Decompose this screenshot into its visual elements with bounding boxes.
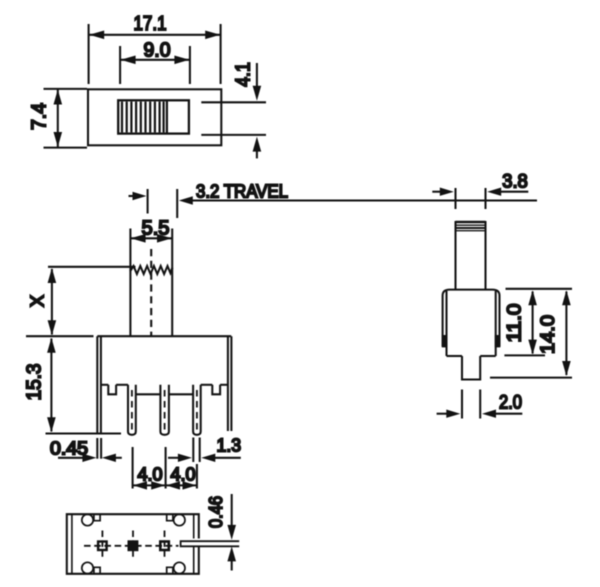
terminal pin 3 dashed center (196, 390, 198, 430)
base strip bottom edge between pins (136, 393, 161, 395)
dim 9.0 extension lines (119, 46, 121, 84)
bottom view: bottom-right corner notch circle (174, 562, 185, 573)
dim 1.3 left-pointing arrow (201, 454, 215, 462)
dim 15.3 bottom extension line (46, 432, 122, 434)
body left mounting leg (96, 336, 98, 433)
side view: inner right wall (495, 291, 497, 356)
dim 4.1 down arrow (256, 63, 258, 90)
dim 11.0 dimension line and arrows (532, 292, 534, 354)
pin3 extension lines (192, 438, 194, 463)
actuator break zigzag (130, 266, 172, 274)
top view: slider knob right edge (166, 100, 168, 133)
dim 3.8 extension lines (454, 188, 456, 209)
actuator left side / extension line (129, 229, 131, 272)
dim 4.1 extension lines (201, 101, 266, 103)
side view: body bottom edge (447, 355, 463, 357)
side view: stem top serrations (456, 221, 486, 224)
travel note: left tick (147, 189, 149, 214)
dim 11.0 bottom extension line (504, 354, 545, 356)
side view: right leg foot (496, 336, 500, 347)
bottom view: top-left corner notch square (94, 515, 100, 521)
dim 0.45 left-pointing arrow (102, 454, 116, 462)
dim 14.0 dimension line and arrows (565, 292, 567, 376)
svg-text:X: X (28, 295, 48, 307)
terminal pin 1 dashed center (131, 390, 133, 430)
bottom view: horizontal dashed center line (84, 545, 179, 547)
dim 11/14 top extension line (506, 288, 573, 290)
svg-text:0.46: 0.46 (206, 496, 226, 528)
svg-text:4.0: 4.0 (171, 465, 196, 485)
svg-text:4.1: 4.1 (233, 62, 255, 87)
travel note: right tick (176, 189, 178, 218)
svg-text:0.45: 0.45 (50, 439, 88, 459)
left bottom tab (108, 385, 116, 395)
top view: switch body outline (88, 89, 221, 145)
bottom view: terminal square 2 (129, 542, 138, 551)
bottom view: inner left wall line (71, 514, 73, 574)
svg-text:3.2 TRAVEL: 3.2 TRAVEL (196, 181, 288, 202)
dim 7.4 extension lines (44, 88, 88, 90)
bottom view: inner right wall line (193, 514, 195, 574)
actuator center dashed line (150, 249, 152, 336)
dim 2.0 extension lines (461, 390, 463, 419)
svg-text:7.4: 7.4 (29, 103, 51, 130)
dim 4.0 (right) line and arrows (166, 484, 196, 486)
side view: inner left wall (445, 291, 447, 356)
pin pitch extension lines (132, 447, 134, 489)
svg-text:2.0: 2.0 (499, 393, 522, 414)
terminal pin 2 dashed center (164, 390, 166, 430)
svg-text:5.5: 5.5 (142, 218, 170, 240)
svg-text:15.3: 15.3 (24, 364, 46, 401)
dim 0.46 down arrow (231, 494, 233, 527)
top view: slider serration hatch (122, 102, 164, 133)
svg-text:3.8: 3.8 (502, 172, 528, 193)
side view: left leg foot (443, 336, 447, 347)
terminal pin 3 outline (193, 385, 201, 435)
dim 17.1 extension lines (88, 24, 90, 84)
dim 0.46 up arrow (227, 546, 236, 561)
side view: body outline with chamfered corners (443, 290, 500, 347)
actuator right side / extension line (171, 229, 173, 270)
bottom view: top-right corner notch square (167, 515, 173, 521)
travel note: right arrow (129, 195, 142, 197)
dim 3.8 right-pointing arrow (432, 191, 441, 193)
body top edge (with left extension for X/15.3 dims) (26, 335, 94, 337)
svg-text:9.0: 9.0 (144, 40, 171, 62)
right bottom tab (212, 385, 220, 395)
dim 14.0 bottom extension line (490, 377, 572, 379)
left leg extension lines (96, 438, 98, 459)
svg-text:17.1: 17.1 (134, 13, 167, 35)
dim 0.45 right-pointing arrow (58, 457, 83, 459)
dim 3.8 left-pointing arrow (487, 188, 501, 196)
bottom view: terminal square 1 (98, 542, 107, 551)
terminal pin 2 outline (160, 385, 169, 435)
dim 5.5 dimension line and arrows (131, 237, 172, 239)
dim 4.0 (left) line and arrows (133, 484, 164, 486)
travel note: left arrow with leader line (179, 196, 193, 204)
svg-text:11.0: 11.0 (504, 304, 525, 343)
bottom view: body outline (right edge has gap for side pin) (67, 514, 199, 574)
dim 15.3 dimension line and arrows (50, 339, 52, 432)
dim 4.1 up arrow (256, 147, 258, 158)
dim 17.1 dimension line and arrows (89, 34, 220, 36)
bottom view: terminal square 3 (160, 542, 169, 551)
dim X: top extension line (actuator top level) (48, 266, 136, 268)
bottom view: bottom-left corner notch square (94, 567, 100, 573)
bottom view: bottom-left corner notch circle (82, 562, 93, 573)
body right mounting leg (227, 336, 229, 431)
bottom view: bottom-right corner notch square (167, 567, 173, 573)
bottom view: top-right corner notch circle (174, 514, 185, 525)
svg-text:1.3: 1.3 (217, 436, 242, 456)
bottom view: top-left corner notch circle (82, 514, 93, 525)
top view: slot opening (118, 100, 189, 133)
terminal pin 1 outline (128, 385, 136, 435)
body bottom edge segments (101, 384, 108, 386)
dim 2.0 left-pointing arrow (482, 410, 496, 418)
svg-text:4.0: 4.0 (138, 465, 163, 485)
bottom view: side pin (181, 541, 240, 546)
dim 9.0 dimension line and arrows (121, 59, 190, 61)
svg-text:14.0: 14.0 (538, 315, 559, 354)
side view: bottom pin (462, 356, 480, 380)
dim 1.3 right-pointing arrow (168, 457, 179, 459)
dim 2.0 right-pointing arrow (437, 413, 447, 415)
side view: actuator stem sides (454, 221, 456, 290)
dim X: dimension line and arrows (51, 269, 53, 335)
dim 7.4 dimension line and arrows (57, 89, 59, 147)
